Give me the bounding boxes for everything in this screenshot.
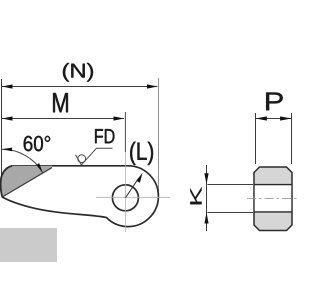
logo block bottom-left (0, 228, 57, 262)
arrow P left (256, 116, 267, 120)
centerline vertical (124, 112, 126, 152)
extension K bottom (208, 212, 254, 214)
arrow N left (2, 84, 13, 88)
left extension line (1, 79, 3, 196)
arrow N right (147, 84, 158, 88)
arrow M right (114, 116, 125, 120)
arrow K top (204, 173, 208, 184)
extension P left (255, 113, 257, 164)
arrow L (136, 173, 142, 183)
arrow M left (2, 116, 13, 120)
label (L) (130, 142, 153, 165)
blade body (1, 166, 159, 227)
label FD (95, 129, 114, 143)
60-degree edge (2, 168, 52, 197)
left arc edge (1, 166, 12, 197)
arrow 60 bottom (36, 163, 42, 172)
shaded wedge (1, 166, 52, 197)
side view body (254, 167, 292, 231)
extension P right (291, 113, 293, 164)
60 degree arc leader (2, 149, 43, 172)
label 60deg (24, 136, 50, 151)
side centerline (247, 198, 299, 200)
label (N) (63, 63, 93, 82)
arrow K bottom (204, 212, 208, 223)
L leader arrow (125, 179, 138, 198)
inner line top (254, 184, 292, 186)
dim M line (2, 118, 124, 120)
centerline vertical lower (124, 152, 126, 232)
extension line N right (158, 78, 160, 199)
label K (190, 187, 201, 204)
label M (53, 93, 68, 112)
extension K top (208, 184, 254, 186)
centerline horizontal (96, 196, 170, 198)
middle band (255, 185, 291, 211)
FD symbol (76, 148, 113, 165)
hole (112, 185, 138, 211)
dim N line (2, 86, 158, 88)
dim P line (256, 118, 291, 120)
arrow 60 top (2, 148, 13, 152)
inner line bottom (254, 211, 292, 213)
label P (266, 93, 283, 111)
dim K line (206, 165, 208, 231)
arrow P right (280, 116, 291, 120)
